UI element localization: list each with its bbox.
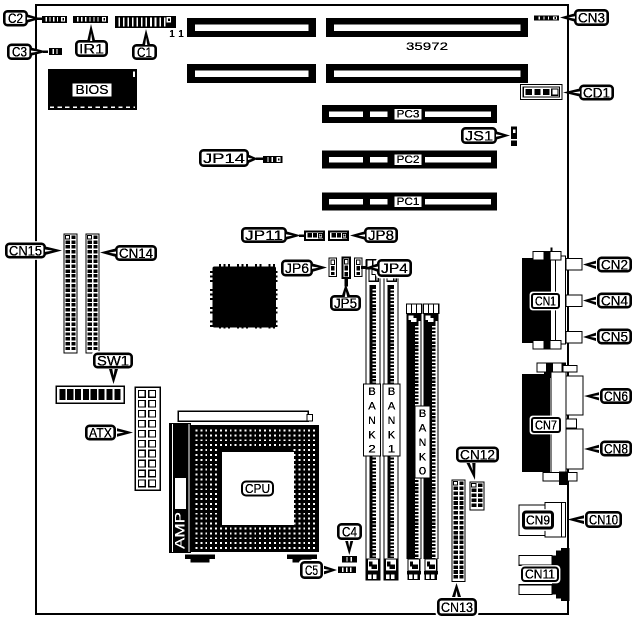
label CN10 [584, 510, 624, 530]
label CN11 [520, 565, 561, 583]
PCI slot PC1 [322, 193, 497, 211]
CPU PGA socket [191, 425, 319, 552]
label JP11 [240, 226, 289, 245]
port CN8 [566, 429, 583, 469]
connector CN15 [64, 234, 77, 353]
connector CN9 USB [519, 505, 545, 536]
label CN9 [521, 509, 556, 531]
svg-text:IR1: IR1 [79, 41, 104, 56]
svg-text:CN2: CN2 [601, 257, 628, 272]
svg-text:K: K [388, 429, 396, 441]
svg-text:JP4: JP4 [381, 261, 409, 276]
svg-text:CN10: CN10 [589, 512, 618, 527]
svg-text:1: 1 [169, 28, 175, 40]
svg-text:CN12: CN12 [460, 447, 495, 462]
label CN6 [599, 387, 634, 406]
svg-text:N: N [388, 415, 396, 427]
jumper JP6 block [329, 258, 337, 277]
IC chip QFP [219, 264, 221, 267]
svg-text:K: K [419, 451, 427, 463]
label IR1 [74, 39, 110, 59]
svg-text:PC2: PC2 [397, 154, 420, 166]
connector CN14 [86, 234, 99, 353]
svg-text:PC3: PC3 [397, 109, 420, 121]
label CN7 [530, 416, 563, 435]
port CN6 [566, 376, 583, 415]
socket foot right [287, 555, 317, 560]
DIMM socket BANK0a [407, 304, 422, 314]
svg-text:JP8: JP8 [368, 228, 394, 243]
svg-text:CN5: CN5 [601, 329, 628, 344]
svg-text:C3: C3 [12, 45, 27, 60]
heatsink bar [178, 411, 308, 421]
BIOS chip U-BIOS [48, 69, 137, 110]
svg-text:PC1: PC1 [397, 196, 420, 208]
svg-text:1: 1 [178, 28, 184, 40]
svg-text:JP14: JP14 [203, 151, 246, 166]
connector JP11 [305, 232, 324, 241]
svg-text:A: A [368, 401, 376, 413]
svg-text:0: 0 [419, 466, 427, 478]
label C4 [336, 522, 364, 542]
label JS1 [460, 126, 499, 146]
svg-text:C2: C2 [8, 11, 23, 26]
label JP5 [329, 294, 363, 313]
connector JP14 [263, 156, 283, 163]
ISA slot row2 right [326, 64, 528, 83]
label CN5 [596, 327, 634, 346]
label JP6 [280, 258, 315, 278]
label SW1 [92, 351, 135, 370]
svg-text:B: B [388, 386, 396, 398]
svg-text:N: N [419, 437, 427, 449]
AMP regulator module [169, 423, 191, 553]
label C2 [2, 9, 30, 28]
label CN2 [596, 255, 634, 274]
DIMM socket BANK0b [424, 304, 439, 314]
PCI slot PC2 [322, 151, 497, 169]
socket foot left [185, 555, 215, 560]
label CD1 [578, 83, 616, 102]
svg-text:CN7: CN7 [535, 418, 557, 432]
svg-text:B: B [368, 386, 376, 398]
ISA slot row1 left [187, 18, 316, 37]
connector CN12 [470, 482, 484, 510]
label CN3 [573, 8, 611, 28]
svg-text:35972: 35972 [406, 41, 448, 53]
svg-text:2: 2 [368, 444, 376, 456]
label CN4 [596, 291, 634, 310]
connector JP8 [329, 232, 348, 241]
connector C2 [42, 16, 67, 23]
svg-text:JP5: JP5 [334, 296, 357, 311]
svg-text:SW1: SW1 [97, 353, 129, 368]
ISA slot row1 right [326, 18, 528, 37]
mid tab CN7 [566, 419, 577, 428]
svg-text:1: 1 [388, 444, 396, 456]
connector IR1 [73, 16, 108, 23]
label CN13 [436, 597, 479, 618]
ISA slot row2 left [187, 64, 316, 83]
svg-text:CN8: CN8 [604, 441, 628, 456]
svg-text:CN4: CN4 [601, 293, 628, 308]
svg-text:C1: C1 [137, 45, 152, 60]
label JP14 [198, 148, 251, 169]
port CN4 [566, 295, 582, 307]
DIMM socket BANK1 [384, 260, 398, 580]
svg-text:BIOS: BIOS [76, 82, 109, 97]
label C1 [131, 43, 159, 62]
label JP4 [376, 258, 414, 279]
svg-text:CN11: CN11 [525, 568, 555, 582]
svg-text:CN1: CN1 [535, 294, 556, 308]
DIP switch SW1 [56, 386, 124, 403]
label CPU [240, 479, 276, 498]
jumper JP4 block [355, 258, 363, 277]
PCI slot PC3 [322, 105, 497, 123]
connector C5 [338, 566, 356, 573]
connector C1 [115, 16, 176, 28]
connector CN11 audio stack [552, 548, 570, 601]
connector C3 [49, 48, 62, 55]
DIMM socket BANK2 [366, 260, 380, 580]
svg-text:C4: C4 [342, 524, 357, 539]
connector CD1 [521, 85, 563, 100]
port CN5 [566, 332, 582, 344]
jumper JP5 block [343, 258, 351, 279]
label ATX [84, 423, 118, 442]
svg-text:K: K [368, 429, 376, 441]
label BANK2 [364, 384, 381, 456]
label C5 [299, 560, 325, 581]
connector CN7 stack [544, 370, 552, 378]
port CN2 [566, 259, 582, 271]
connector C4 [342, 556, 357, 563]
svg-text:A: A [419, 423, 427, 435]
svg-text:CN15: CN15 [9, 243, 42, 258]
connector CN1 DIN stack [522, 258, 550, 343]
svg-text:CD1: CD1 [583, 85, 610, 100]
connector CN13 [452, 480, 465, 582]
label C3 [6, 42, 34, 61]
svg-text:C5: C5 [305, 563, 318, 578]
label CN12 [455, 445, 501, 464]
label BANK1 [383, 384, 400, 456]
svg-text:JP11: JP11 [245, 228, 283, 243]
svg-text:CN13: CN13 [441, 600, 473, 615]
svg-text:CN14: CN14 [119, 246, 153, 261]
svg-text:A: A [388, 401, 396, 413]
svg-text:CN9: CN9 [526, 513, 550, 527]
label CN15 [4, 241, 48, 260]
connector CN3 [534, 15, 559, 20]
jumper JS1 [511, 127, 517, 147]
label CN8 [599, 439, 634, 458]
label BANK0 [415, 406, 430, 478]
svg-text:JS1: JS1 [465, 128, 493, 143]
label JP8 [363, 226, 400, 245]
svg-text:CN6: CN6 [604, 389, 628, 404]
svg-text:N: N [368, 415, 376, 427]
label CN14 [114, 244, 159, 263]
svg-text:ATX: ATX [89, 425, 112, 440]
svg-text:JP6: JP6 [285, 261, 309, 276]
svg-text:CN3: CN3 [578, 10, 605, 25]
svg-text:B: B [419, 408, 427, 420]
svg-text:CPU: CPU [245, 482, 270, 496]
svg-text:AMP: AMP [173, 512, 188, 549]
label CN1 [530, 292, 562, 311]
ATX power connector [135, 387, 160, 490]
